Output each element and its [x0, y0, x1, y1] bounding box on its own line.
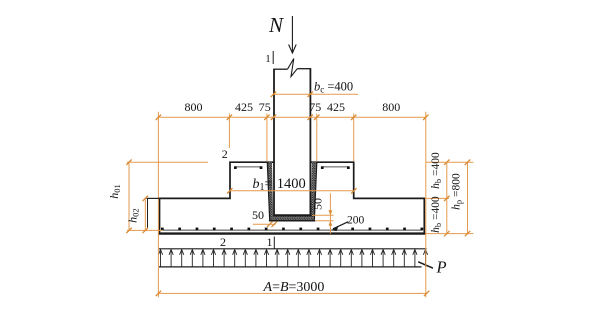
50 left dimension line	[253, 223, 276, 225]
top rebar right bar	[322, 166, 348, 168]
svg-text:P: P	[436, 257, 447, 276]
P label leader	[418, 262, 433, 268]
svg-text:hb =400: hb =400	[430, 196, 443, 233]
svg-text:800: 800	[382, 100, 400, 114]
svg-text:1400: 1400	[277, 176, 306, 192]
right extension y162	[426, 161, 474, 163]
svg-text:1: 1	[267, 235, 273, 249]
section mark 1 bottom	[267, 235, 275, 249]
right extension y198	[426, 197, 450, 199]
h02 black extension	[147, 197, 161, 199]
200 leader	[333, 222, 348, 229]
svg-text:A=B=3000: A=B=3000	[263, 280, 325, 295]
svg-text:50: 50	[252, 208, 264, 222]
svg-text:2: 2	[222, 147, 228, 161]
h01 dimension line	[128, 162, 130, 230]
b1 dimension line	[230, 190, 354, 192]
grout fill left strip (stipple)	[267, 162, 273, 216]
extension line x317	[316, 114, 318, 162]
footing outline	[160, 162, 425, 233]
svg-text:425: 425	[235, 100, 253, 114]
svg-text:50: 50	[310, 198, 324, 210]
top rebar left bar	[235, 166, 261, 168]
svg-text:2: 2	[220, 235, 226, 249]
extension line x354	[353, 114, 355, 162]
50 right dimension line	[329, 193, 331, 234]
hb dimension line	[446, 162, 448, 233]
50 right extension lower	[316, 220, 334, 222]
column top edge left part	[273, 68, 287, 70]
column bottom edge	[273, 214, 311, 216]
extension line x229	[228, 114, 230, 149]
grout fill bottom band (stipple)	[270, 215, 315, 220]
svg-text:200: 200	[347, 215, 365, 227]
svg-text:N: N	[268, 13, 284, 37]
svg-text:1: 1	[265, 53, 271, 65]
column	[275, 69, 310, 215]
extension line right long	[425, 112, 427, 297]
column right edge	[309, 69, 311, 216]
svg-text:hp =800: hp =800	[450, 173, 463, 210]
top chain labels	[185, 100, 401, 114]
extension line left long	[157, 112, 159, 297]
hp dimension line	[467, 162, 469, 233]
bottom rebar line	[162, 229, 423, 231]
bc dimension line	[274, 93, 359, 95]
cup floor line	[269, 220, 315, 222]
pressure arrows	[158, 250, 427, 267]
right extension y233	[426, 233, 474, 235]
footing bottom edge	[158, 232, 425, 234]
h02 dimension line	[144, 198, 146, 230]
h01 top extension	[127, 161, 208, 163]
50 right extension upper	[312, 214, 334, 216]
h01 bottom extension	[127, 229, 163, 231]
cup inner face right	[314, 162, 317, 220]
column break symbol	[288, 59, 298, 77]
bottom rebar dots	[161, 228, 423, 231]
svg-text:bc =400: bc =400	[314, 80, 353, 95]
pressure diagram bottom line	[159, 266, 422, 268]
svg-text:hb =400: hb =400	[430, 152, 443, 189]
grout fill right strip (stipple)	[311, 162, 317, 216]
svg-text:425: 425	[327, 100, 345, 114]
load N arrow	[291, 16, 293, 52]
svg-text:75: 75	[309, 100, 321, 114]
column left edge	[273, 69, 275, 216]
top dimension chain line	[158, 116, 425, 118]
pressure diagram top line	[159, 248, 427, 250]
cup inner face left	[267, 162, 269, 220]
section mark 1 top	[265, 51, 273, 65]
A=B dimension line	[158, 292, 426, 294]
extension line x267	[266, 114, 268, 162]
dimension ticks	[126, 92, 470, 297]
svg-text:800: 800	[185, 100, 203, 114]
svg-text:75: 75	[259, 100, 271, 114]
column top edge right part	[297, 68, 311, 70]
50 right arrows	[329, 210, 333, 215]
